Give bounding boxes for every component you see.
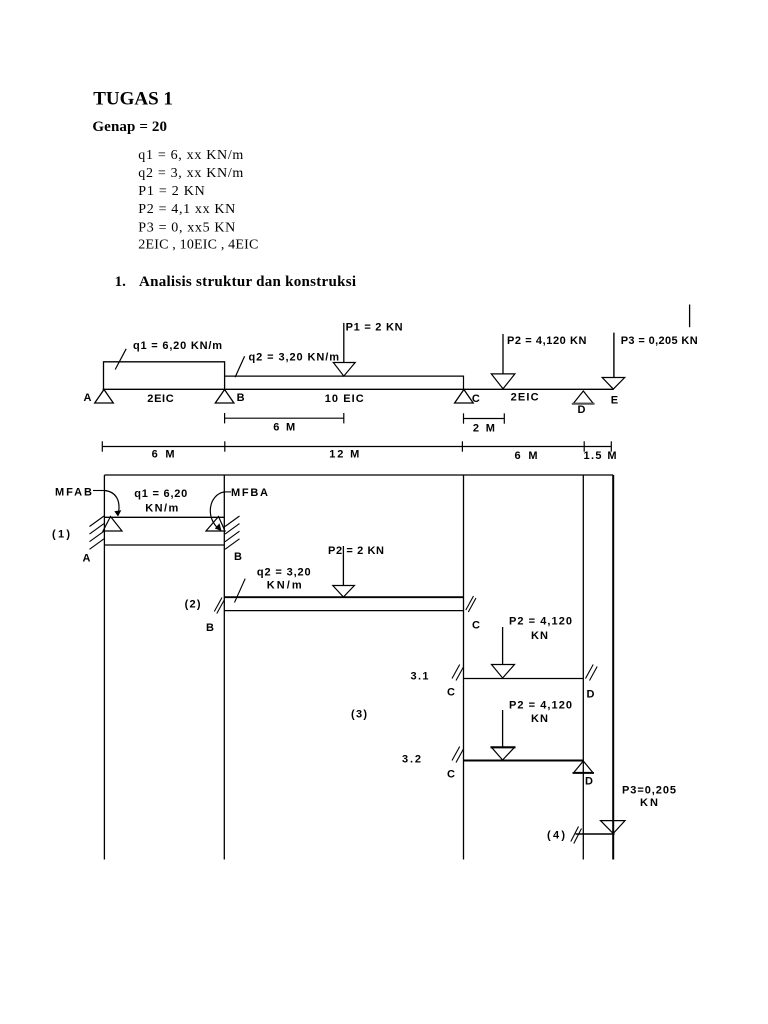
q2 label leader line	[235, 356, 245, 377]
svg-text:Genap = 20: Genap = 20	[92, 119, 167, 135]
svg-text:E: E	[611, 394, 618, 406]
support triangle at B (span 1)	[206, 517, 225, 532]
pin support A (top beam)	[95, 390, 114, 404]
svg-text:C: C	[447, 686, 455, 698]
hatch at C end (span 3.1)	[452, 665, 460, 679]
column B	[223, 475, 225, 860]
svg-text:C: C	[472, 393, 480, 405]
force arrow P1	[343, 323, 345, 363]
svg-text:P2 = 4,120: P2 = 4,120	[509, 700, 572, 712]
support triangle at A (span 1)	[103, 517, 122, 532]
force arrow P3 (top diagram)	[613, 333, 615, 378]
hatch at left end (span 4)	[571, 827, 579, 842]
svg-text:2EIC: 2EIC	[511, 391, 539, 403]
span (2) beam bottom line	[224, 610, 463, 612]
svg-text:P3 = 0, xx5 KN: P3 = 0, xx5 KN	[138, 220, 235, 235]
svg-text:q1 = 6,20 KN/m: q1 = 6,20 KN/m	[133, 340, 222, 352]
distributed load q1 box (span A-B)	[104, 362, 225, 390]
svg-text:12 M: 12 M	[329, 449, 359, 461]
svg-text:(3): (3)	[351, 708, 367, 720]
svg-text:q2 = 3,20: q2 = 3,20	[257, 566, 311, 578]
span (3.1) beam line	[464, 678, 584, 680]
svg-text:KN/m: KN/m	[267, 580, 302, 592]
svg-text:P2 = 2 KN: P2 = 2 KN	[328, 545, 384, 557]
svg-text:1.5 M: 1.5 M	[584, 450, 617, 462]
svg-text:B: B	[237, 392, 245, 404]
svg-text:D: D	[578, 404, 586, 416]
svg-text:(2): (2)	[185, 599, 201, 611]
hatch at C end (span 2)	[466, 596, 474, 610]
hatch at C end (span 3.2)	[452, 747, 460, 761]
fixed-end hatching at B	[225, 516, 240, 527]
svg-text:D: D	[587, 689, 595, 701]
svg-text:P3 = 0,205 KN: P3 = 0,205 KN	[621, 335, 698, 347]
span (4) beam line D-E	[576, 833, 615, 835]
column A	[103, 475, 105, 860]
distributed load q2 box (span B-C)	[225, 376, 464, 389]
svg-text:2EIC , 10EIC , 4EIC: 2EIC , 10EIC , 4EIC	[138, 237, 258, 252]
svg-text:KN: KN	[531, 630, 548, 642]
svg-text:3.2: 3.2	[402, 753, 421, 765]
svg-text:P1 = 2 KN: P1 = 2 KN	[346, 322, 403, 334]
svg-text:6 M: 6 M	[515, 450, 538, 462]
column D	[582, 475, 584, 860]
fixed-end hatching at A	[90, 516, 105, 527]
q2 label leader (span 2)	[235, 579, 246, 603]
svg-text:3.1: 3.1	[411, 671, 429, 683]
hatch at D end (span 3.1)	[586, 665, 594, 679]
svg-text:A: A	[84, 392, 92, 404]
force arrow P2 (top diagram)	[502, 334, 504, 374]
svg-text:1.: 1.	[115, 274, 127, 290]
svg-text:KN: KN	[531, 713, 548, 725]
svg-text:B: B	[234, 551, 242, 563]
svg-text:10 EIC: 10 EIC	[325, 393, 364, 405]
svg-text:MFAB: MFAB	[55, 486, 92, 498]
P3 arrowhead (span 4)	[601, 821, 626, 834]
svg-text:2EIC: 2EIC	[147, 393, 173, 405]
span (1) beam top line	[104, 516, 224, 518]
svg-text:D: D	[585, 775, 593, 787]
svg-text:6 M: 6 M	[152, 449, 175, 461]
main dimension line with ticks	[102, 446, 611, 448]
svg-text:P2 = 4,120: P2 = 4,120	[509, 616, 572, 628]
svg-text:P3=0,205: P3=0,205	[622, 784, 676, 796]
roller support D (top beam)	[574, 391, 594, 403]
pin support C (top beam)	[455, 390, 474, 404]
svg-text:q2 = 3,20 KN/m: q2 = 3,20 KN/m	[249, 352, 340, 364]
svg-text:(1): (1)	[52, 529, 70, 541]
stray vertical mark above P3 label	[689, 305, 691, 328]
roller support at D (span 3.2)	[574, 761, 593, 773]
span (1) beam bottom line	[104, 544, 224, 546]
svg-text:(4): (4)	[547, 830, 565, 842]
beam main line A-E	[103, 388, 614, 390]
svg-text:P1 = 2 KN: P1 = 2 KN	[138, 184, 205, 199]
svg-text:C: C	[472, 620, 480, 632]
force arrow P2 (span 3.1)	[502, 627, 504, 665]
svg-text:2 M: 2 M	[473, 422, 495, 434]
svg-text:A: A	[83, 553, 91, 565]
svg-text:KN/m: KN/m	[145, 503, 178, 515]
svg-text:q1 = 6, xx KN/m: q1 = 6, xx KN/m	[138, 148, 243, 163]
svg-text:MFBA: MFBA	[231, 487, 268, 499]
moment arrow MFAB (arc)	[93, 490, 105, 492]
svg-text:P2 = 4,1 xx KN: P2 = 4,1 xx KN	[138, 202, 235, 217]
column C	[463, 475, 465, 860]
force arrow P2 (span 3.2)	[502, 710, 504, 747]
top chord line A-E	[104, 474, 613, 476]
force arrow P2 = 2 KN (span 2)	[342, 546, 344, 586]
svg-text:6 M: 6 M	[273, 422, 295, 434]
svg-text:Analisis struktur dan konstruk: Analisis struktur dan konstruksi	[139, 274, 356, 290]
pin support B (top beam)	[215, 390, 234, 404]
moment arrow MFBA (arc)	[224, 491, 231, 493]
svg-text:B: B	[206, 622, 214, 634]
svg-text:q2 = 3, xx KN/m: q2 = 3, xx KN/m	[138, 166, 243, 181]
span (2) beam top line	[224, 596, 463, 598]
svg-text:q1 = 6,20: q1 = 6,20	[134, 488, 187, 500]
svg-text:C: C	[447, 768, 455, 780]
svg-text:P2 = 4,120 KN: P2 = 4,120 KN	[507, 335, 587, 347]
span (3.2) beam line	[464, 760, 584, 762]
q1 label leader line	[115, 349, 126, 370]
hatch at B end (span 2)	[214, 598, 222, 612]
dimension line 6 M (B to P1)	[225, 417, 344, 419]
dimension line 2 M (C to P2)	[464, 418, 505, 420]
column E (load line P3)	[612, 475, 614, 860]
svg-text:TUGAS 1: TUGAS 1	[93, 89, 173, 110]
